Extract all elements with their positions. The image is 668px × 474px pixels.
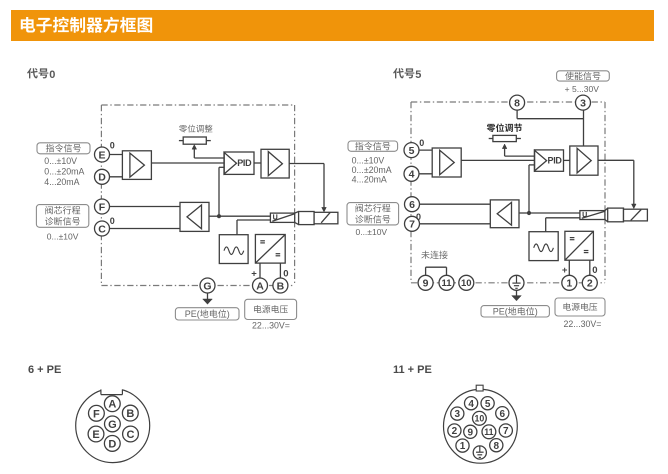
svg-text:F: F (93, 408, 100, 420)
label 代号0 (27, 68, 48, 78)
terminal D (95, 169, 110, 184)
potentiometer zero-adjust (code 0) (179, 140, 183, 142)
wire 7 to amplifier B3 (412, 223, 490, 225)
wire C to amplifier A3 (102, 228, 180, 230)
terminal 2 (582, 275, 597, 290)
pin C (123, 426, 139, 442)
amplifier A2 (output amp) (261, 149, 289, 178)
svg-text:2: 2 (587, 278, 593, 290)
svg-text:7: 7 (503, 426, 509, 437)
wire DC converter to 2 (589, 260, 591, 275)
label box 电源电压 (code 5) (555, 298, 605, 316)
svg-text:6: 6 (500, 409, 506, 420)
svg-text:11: 11 (484, 427, 493, 437)
label 未连接 (421, 251, 447, 259)
svg-text:): ) (227, 309, 230, 319)
svg-text:PE(: PE( (493, 307, 508, 317)
connector keyway notch (101, 386, 123, 395)
wire 3 enable to amplifier B2 (583, 110, 585, 146)
arrowhead into solenoid (code 5) (632, 204, 637, 209)
wire B3 output to node N2 (519, 212, 529, 214)
pin 9 (464, 425, 477, 438)
label box 指令信号 (code 5) (348, 141, 398, 151)
DC converter block (code 5) (565, 231, 594, 260)
svg-text:A: A (108, 399, 116, 411)
svg-text:8: 8 (514, 97, 520, 109)
svg-text:22...30V=: 22...30V= (252, 321, 290, 331)
LVDT position transducer (code 5) (580, 211, 605, 220)
svg-text:G: G (108, 419, 117, 431)
terminal PE ground (509, 275, 524, 290)
oscillator block (219, 235, 248, 264)
svg-text:11 + PE: 11 + PE (393, 364, 432, 376)
terminal 11 (439, 275, 454, 290)
wire D to amplifier A1 (102, 176, 122, 178)
wire node N1 to LVDT (219, 215, 270, 217)
svg-text:0...±20mA: 0...±20mA (352, 165, 392, 175)
valve solenoid block (code 5) (624, 209, 648, 221)
svg-text:0: 0 (110, 216, 115, 226)
pin 10 (473, 411, 487, 425)
amplifier B2 (output amp) (570, 146, 598, 175)
amplifier B1 (input amp) (432, 148, 461, 177)
wire feedback node N1 to PID (218, 167, 220, 216)
svg-text:6 + PE: 6 + PE (28, 364, 61, 376)
svg-text:B: B (277, 280, 285, 292)
header title 电子控制器方框图 (21, 17, 152, 33)
svg-text:9: 9 (423, 278, 429, 290)
enclosure dash-dot border (code 5) (411, 101, 605, 103)
svg-text:0: 0 (416, 212, 421, 222)
svg-text:1: 1 (566, 278, 572, 290)
svg-text:3: 3 (455, 409, 461, 420)
wire DC converter to A (259, 263, 261, 278)
connector body 11+PE (444, 389, 518, 463)
terminal 8 (510, 95, 525, 110)
terminal 6 (405, 197, 420, 212)
svg-text:0: 0 (419, 138, 424, 148)
pin 11 (482, 425, 496, 439)
svg-text:D: D (98, 172, 106, 184)
potentiometer zero-adjust (code 5) (489, 138, 493, 140)
connector body 6+PE (76, 389, 150, 463)
svg-text:C: C (98, 223, 106, 235)
terminal 1 (562, 275, 577, 290)
svg-text:+: + (562, 265, 568, 276)
terminal A (253, 278, 268, 293)
pin 8 (490, 439, 503, 452)
junction node N1 (217, 214, 221, 218)
svg-text:0: 0 (592, 265, 597, 276)
wire PID output to amplifier B2 (564, 159, 570, 161)
svg-text:4: 4 (409, 169, 415, 181)
wire 8 to enable net (516, 110, 518, 119)
pin D (104, 436, 120, 452)
svg-text:0: 0 (49, 69, 55, 81)
unconnected bracket 9-11 (425, 267, 427, 275)
svg-text:5: 5 (409, 145, 415, 157)
terminal B (273, 278, 288, 293)
svg-text:4...20mA: 4...20mA (44, 177, 79, 187)
label box 使能信号 (557, 71, 610, 81)
pin 7 (499, 424, 512, 437)
wire zero-adjust to PID (code 5) (505, 155, 535, 157)
label box 电源电压 (245, 299, 297, 319)
zero-adjust arrowhead (code 5) (502, 144, 507, 149)
svg-text:10: 10 (475, 414, 485, 424)
wire zero-adjust to PID (194, 157, 224, 159)
pin 4 (465, 397, 478, 410)
amplifier A3 (feedback amp) (180, 202, 209, 231)
svg-text:22...30V=: 22...30V= (564, 319, 602, 329)
pin F (89, 405, 105, 421)
svg-text:10: 10 (461, 278, 472, 289)
svg-text:B: B (126, 408, 134, 420)
PE arrow from G (207, 293, 209, 299)
header bar (11, 10, 654, 41)
pin 3 (451, 407, 464, 420)
svg-text:0...±20mA: 0...±20mA (44, 166, 84, 176)
wire feedback node N2 to PID (528, 165, 530, 213)
wire F to amplifier A3 (102, 206, 180, 208)
svg-text:E: E (98, 149, 105, 161)
label box PE(地电位) (175, 308, 239, 320)
coupling block (code 5) (608, 208, 624, 222)
wire E to amplifier A1 (102, 154, 122, 156)
svg-text:7: 7 (409, 219, 415, 231)
wire 6 to amplifier B3 (412, 203, 490, 205)
wire DC converter to 1 (568, 260, 570, 275)
LVDT position transducer (270, 213, 294, 222)
svg-text:6: 6 (409, 199, 415, 211)
oscillator block (code 5) (529, 232, 558, 261)
svg-text:9: 9 (468, 427, 474, 438)
coupling block (299, 212, 315, 225)
svg-text:D: D (108, 438, 116, 450)
PID controller block (224, 152, 254, 174)
svg-text:1: 1 (460, 441, 466, 452)
svg-text:0...±10V: 0...±10V (355, 227, 387, 237)
DC converter block (255, 235, 285, 264)
terminal G (200, 278, 215, 293)
svg-text:4: 4 (468, 399, 474, 410)
pin 1 (456, 439, 469, 452)
zero-adjust arrowhead (192, 145, 197, 150)
pin E (88, 426, 104, 442)
wire node N2 to LVDT (529, 212, 580, 214)
svg-text:0...±10V: 0...±10V (47, 232, 79, 242)
terminal 5 (404, 143, 419, 158)
label box 指令信号 (37, 143, 90, 154)
wire DC converter to B (279, 263, 281, 278)
amplifier A1 (input amp) (122, 151, 151, 180)
terminal 10 (459, 275, 474, 290)
pin 2 (448, 424, 461, 437)
label box 阀芯行程诊断信号 (code 5) (347, 203, 399, 225)
svg-text:5: 5 (485, 399, 491, 410)
pin G (105, 416, 121, 432)
label box 阀芯行程诊断信号 (36, 205, 88, 228)
svg-text:C: C (127, 429, 135, 441)
svg-text:E: E (92, 429, 99, 441)
svg-text:2: 2 (452, 426, 458, 437)
label 零位调整 (179, 125, 212, 133)
wire oscillator to LVDT (code 5) (545, 218, 547, 232)
wire oscillator to LVDT (236, 220, 238, 235)
pin 5 (481, 397, 494, 410)
junction node N2 (527, 211, 531, 215)
PE arrow (code 5) (516, 290, 518, 296)
svg-text:+ 5...30V: + 5...30V (565, 84, 600, 94)
svg-text:0: 0 (283, 268, 288, 279)
pin B (122, 405, 138, 421)
terminal E (95, 147, 110, 162)
pin A (104, 396, 120, 412)
svg-text:PID: PID (548, 156, 563, 166)
valve solenoid block (314, 212, 338, 224)
amplifier B3 (feedback amp) (490, 200, 519, 228)
transducer taper (295, 212, 299, 214)
svg-text:3: 3 (580, 97, 586, 109)
enclosure dash-dot border (code 0) (101, 104, 294, 106)
pin 6 (496, 407, 509, 420)
wire A1 output to PID (151, 162, 224, 164)
pin PE earth (473, 446, 486, 459)
svg-text:PE(: PE( (185, 309, 200, 319)
svg-text:5: 5 (415, 69, 421, 81)
svg-text:0...±10V: 0...±10V (44, 156, 77, 166)
wire A3 output to node N1 (209, 215, 219, 217)
PID controller block (code 5) (534, 150, 563, 171)
terminal 9 (418, 275, 433, 290)
wire 4 to amplifier B1 (412, 173, 433, 175)
label 零位调节 (487, 123, 522, 132)
terminal F (95, 199, 110, 214)
svg-text:G: G (203, 280, 211, 292)
svg-text:4...20mA: 4...20mA (352, 175, 387, 185)
svg-text:8: 8 (494, 441, 500, 452)
svg-text:A: A (256, 280, 264, 292)
svg-text:+: + (251, 268, 257, 279)
terminal C (95, 221, 110, 236)
connector key tab (476, 385, 483, 391)
svg-text:F: F (99, 201, 106, 213)
wire B1 output to PID (461, 159, 534, 161)
wire 5 to amplifier B1 (412, 149, 433, 151)
transducer taper (code 5) (605, 208, 608, 211)
wire PID output to amplifier A2 (254, 162, 261, 164)
terminal 4 (404, 166, 419, 181)
terminal 7 (405, 216, 420, 231)
wire A2 output to valve solenoid (289, 163, 324, 165)
label 代号5 (393, 68, 414, 78)
svg-text:): ) (535, 307, 538, 317)
arrowhead into solenoid (322, 207, 327, 212)
label box PE(地电位) (code 5) (481, 306, 549, 317)
terminal 3 (576, 95, 591, 110)
svg-text:11: 11 (441, 278, 452, 289)
svg-text:0: 0 (110, 141, 115, 151)
wire B2 output to valve solenoid (598, 159, 634, 161)
svg-text:PID: PID (237, 158, 252, 168)
